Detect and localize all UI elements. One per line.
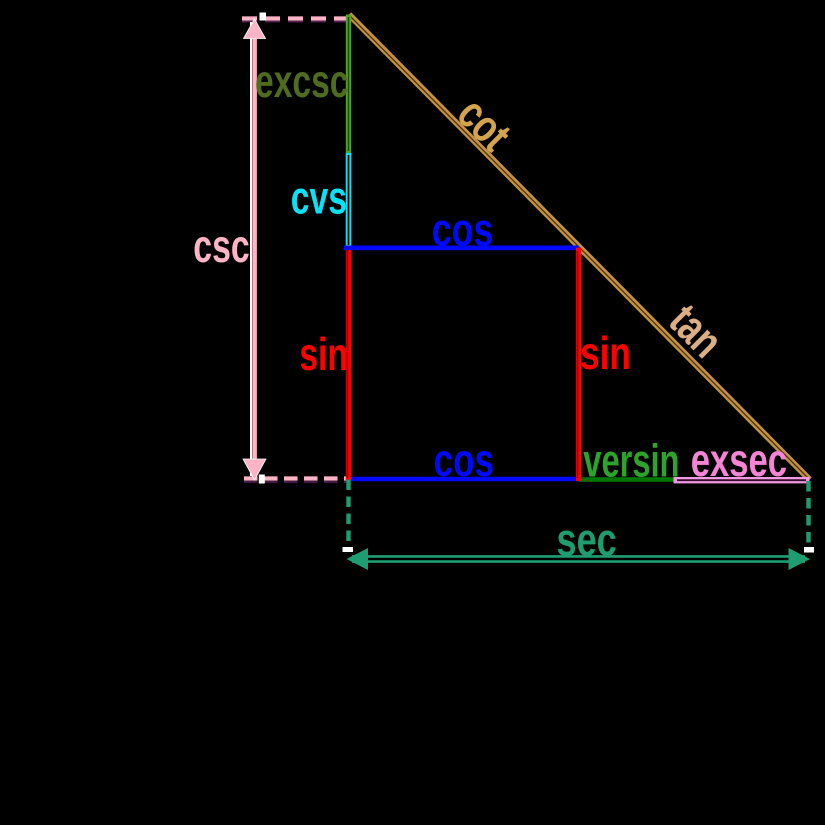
white tick at sec left — [343, 547, 354, 552]
csc dimension line — [252, 30, 257, 468]
svg-text:cvs: cvs — [291, 172, 347, 224]
cos line bottom — [346, 477, 579, 482]
sec arrowhead left — [347, 548, 369, 570]
white tick at csc bottom — [259, 475, 265, 484]
cos line top — [344, 246, 579, 251]
sec shaft dark core — [366, 558, 791, 561]
sin line left — [346, 247, 351, 481]
sec dashed extension line left — [346, 480, 350, 550]
svg-text:excsc: excsc — [255, 55, 349, 107]
svg-text:cos: cos — [432, 203, 494, 255]
csc arrowhead top — [244, 19, 266, 39]
exsec line dark core — [677, 479, 806, 481]
dashed pink extension line top (csc) — [242, 16, 347, 20]
svg-text:sec: sec — [557, 514, 617, 566]
exsec line — [674, 477, 810, 483]
hypotenuse dark core — [351, 17, 809, 479]
sec arrowhead right — [789, 548, 811, 570]
svg-text:versin: versin — [583, 434, 679, 486]
svg-text:csc: csc — [193, 220, 249, 272]
sin line right — [576, 248, 581, 481]
cvs segment dark core — [348, 155, 350, 245]
svg-text:cos: cos — [434, 434, 494, 486]
violet ghost under bottom dashed line — [244, 481, 347, 483]
svg-text:tan: tan — [660, 294, 734, 368]
cvs segment — [346, 153, 352, 247]
hypotenuse tangent line (cot+tan) — [349, 15, 810, 480]
sin line left dark core — [346, 250, 348, 478]
csc arrowhead bottom — [243, 459, 266, 480]
sec dimension shaft — [352, 555, 805, 563]
dashed pink extension line bottom (csc) — [244, 476, 346, 480]
excsc segment dark core — [348, 17, 350, 151]
white tick at sec right — [804, 547, 814, 553]
sec dashed extension line right — [806, 481, 810, 549]
violet ghost under top dashed line — [242, 21, 347, 23]
csc dimension line white casing — [250, 22, 252, 476]
svg-text:sin: sin — [299, 328, 348, 380]
svg-text:exsec: exsec — [691, 434, 787, 486]
svg-text:cot: cot — [448, 87, 522, 161]
white tick at csc top — [260, 13, 267, 21]
sin line right dark core — [577, 251, 579, 478]
svg-text:sin: sin — [580, 327, 631, 379]
versin line — [579, 477, 674, 482]
excsc segment — [346, 15, 351, 154]
